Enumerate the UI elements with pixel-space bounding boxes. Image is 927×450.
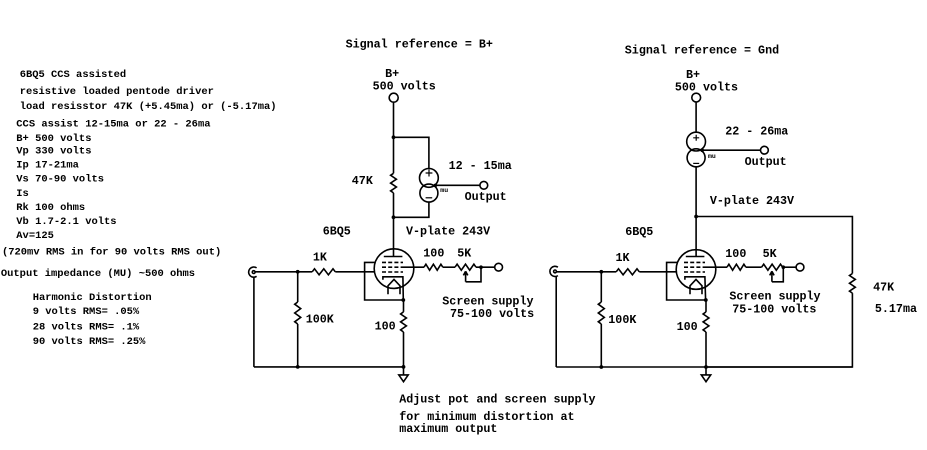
svg-text:6BQ5: 6BQ5 bbox=[625, 225, 653, 239]
resistor 100K (A) bbox=[295, 302, 301, 324]
wire 1K to grid (B) bbox=[639, 271, 676, 273]
tube V1 grid g1 (A) bbox=[382, 271, 403, 273]
node rail 100K junction (A) bbox=[296, 365, 300, 369]
svg-text:100K: 100K bbox=[608, 313, 637, 327]
wire ground rail (A) bbox=[254, 366, 404, 368]
wire cathode to rail (A) bbox=[403, 332, 405, 367]
terminal input jack arc (B) bbox=[550, 266, 558, 276]
node cathode junction (A) bbox=[401, 298, 405, 302]
terminal B+ (B) bbox=[692, 93, 701, 102]
pot wiper arrow (B) bbox=[770, 271, 774, 282]
tube V2 plate (B) bbox=[686, 256, 705, 258]
resistor 1K (A) bbox=[312, 269, 335, 275]
wire suppressor to cathode (A) bbox=[365, 262, 404, 300]
svg-text:5K: 5K bbox=[763, 247, 778, 261]
svg-text:100: 100 bbox=[725, 247, 746, 261]
svg-text:5.17ma: 5.17ma bbox=[875, 302, 917, 316]
resistor 47K load (B) bbox=[850, 274, 856, 294]
svg-text:100: 100 bbox=[423, 247, 444, 261]
svg-text:load resisstor 47K (+5.45ma) o: load resisstor 47K (+5.45ma) or (-5.17ma… bbox=[20, 101, 277, 113]
svg-text:12 - 15ma: 12 - 15ma bbox=[449, 159, 512, 173]
wire cathode resistor lead (B) bbox=[705, 300, 707, 312]
wire 100 to 5K (A) bbox=[443, 266, 455, 268]
minus sign (A) bbox=[426, 197, 433, 199]
node input junction (B) bbox=[599, 270, 603, 274]
terminal B+ (A) bbox=[389, 93, 398, 102]
wire output (A) bbox=[435, 184, 480, 186]
svg-text:(720mv RMS in for 90 volts RMS: (720mv RMS in for 90 volts RMS out) bbox=[2, 247, 221, 259]
svg-text:mu: mu bbox=[440, 187, 448, 194]
resistor 100 screen (B) bbox=[727, 264, 746, 270]
svg-text:100: 100 bbox=[677, 320, 698, 334]
node CCS output junction (B) bbox=[700, 149, 704, 153]
resistor 100 cathode (A) bbox=[401, 312, 407, 332]
tube V2 envelope (B) bbox=[676, 250, 716, 290]
node rail 100K junction (B) bbox=[599, 365, 603, 369]
wire to screen terminal (A) bbox=[476, 266, 495, 268]
wire 1K to grid (A) bbox=[335, 271, 374, 273]
wire input drop (A) bbox=[253, 277, 255, 367]
node plate junction (A) bbox=[392, 215, 396, 219]
resistor 1K (B) bbox=[616, 269, 639, 275]
svg-text:V-plate 243V: V-plate 243V bbox=[406, 224, 490, 238]
svg-text:Vs 70-90 volts: Vs 70-90 volts bbox=[16, 174, 104, 186]
svg-text:Signal reference = B+: Signal reference = B+ bbox=[346, 38, 493, 52]
wire screen (B) bbox=[705, 266, 727, 268]
ground stub (A) bbox=[403, 367, 405, 375]
svg-text:47K: 47K bbox=[873, 280, 895, 294]
svg-text:500 volts: 500 volts bbox=[373, 80, 436, 94]
svg-text:100K: 100K bbox=[306, 313, 335, 327]
pot wiper arrow (A) bbox=[463, 271, 467, 282]
svg-text:Is: Is bbox=[16, 188, 29, 200]
tube V2 grid g2 (B) bbox=[684, 266, 705, 268]
wire CCS to plate node (B) bbox=[695, 167, 697, 257]
wire 47K to plate node (A) bbox=[393, 193, 395, 257]
svg-text:resistive loaded pentode drive: resistive loaded pentode driver bbox=[20, 86, 214, 98]
plus sign (A) bbox=[426, 170, 433, 177]
terminal input jack arc (A) bbox=[249, 267, 257, 277]
terminal output (B) bbox=[761, 146, 769, 154]
wire ground rail (B) bbox=[556, 366, 852, 368]
svg-text:V-plate 243V: V-plate 243V bbox=[710, 194, 794, 208]
terminal input jack (A) bbox=[252, 271, 255, 274]
svg-text:500 volts: 500 volts bbox=[675, 81, 738, 95]
resistor 100 cathode (B) bbox=[703, 312, 709, 332]
svg-text:1K: 1K bbox=[616, 251, 631, 265]
current source CCS bottom circle (B) bbox=[687, 149, 705, 167]
resistor 47K (A) bbox=[391, 173, 397, 193]
resistor 100 screen (A) bbox=[424, 264, 443, 270]
svg-text:22 - 26ma: 22 - 26ma bbox=[725, 125, 788, 139]
tube V2 grid g3 (B) bbox=[684, 261, 705, 263]
svg-text:Output: Output bbox=[745, 155, 787, 169]
terminal screen supply (A) bbox=[495, 263, 503, 271]
wire cathode resistor lead (A) bbox=[403, 300, 405, 312]
tube V1 cathode (A) bbox=[383, 277, 403, 300]
wire input (B) bbox=[557, 271, 617, 273]
wire wiper to end (A) bbox=[466, 267, 481, 282]
svg-text:Screen supply: Screen supply bbox=[729, 290, 820, 304]
wire to screen terminal (B) bbox=[783, 266, 797, 268]
terminal output (A) bbox=[480, 181, 488, 189]
svg-text:75-100 volts: 75-100 volts bbox=[450, 307, 534, 321]
svg-text:5K: 5K bbox=[457, 247, 472, 261]
svg-text:Signal reference = Gnd: Signal reference = Gnd bbox=[625, 43, 779, 57]
svg-text:Ip 17-21ma: Ip 17-21ma bbox=[16, 159, 79, 171]
tube V1 heater (A) bbox=[388, 279, 400, 294]
node input junction (A) bbox=[296, 270, 300, 274]
svg-text:Output impedance (MU) ~500 ohm: Output impedance (MU) ~500 ohms bbox=[1, 268, 195, 280]
svg-text:6BQ5: 6BQ5 bbox=[323, 225, 351, 239]
notes text block bbox=[1, 69, 277, 348]
terminal input jack (B) bbox=[554, 270, 557, 273]
svg-text:mu: mu bbox=[708, 153, 716, 160]
wire plate node to 47K (B) bbox=[696, 217, 852, 274]
wire CCS branch bottom (A) bbox=[394, 202, 429, 217]
wire output (B) bbox=[702, 149, 760, 151]
wire 100K top lead (B) bbox=[600, 272, 602, 302]
svg-text:Output: Output bbox=[465, 190, 507, 204]
wire 100 to 5K (B) bbox=[746, 266, 762, 268]
svg-text:90 volts RMS= .25%: 90 volts RMS= .25% bbox=[33, 336, 146, 348]
wire 100K bottom lead (A) bbox=[297, 324, 299, 367]
plus sign (B) bbox=[693, 135, 699, 141]
svg-text:28 volts RMS= .1%: 28 volts RMS= .1% bbox=[33, 321, 140, 333]
ground symbol (A) bbox=[399, 375, 408, 382]
svg-text:Adjust pot and screen supply: Adjust pot and screen supply bbox=[399, 392, 595, 406]
tube V2 cathode (B) bbox=[685, 277, 706, 300]
wire CCS branch top (A) bbox=[394, 137, 429, 168]
tube V1 plate (A) bbox=[384, 256, 403, 258]
wire input (A) bbox=[255, 271, 312, 273]
wire wiper to end (B) bbox=[772, 267, 783, 282]
node cathode junction (B) bbox=[704, 298, 708, 302]
minus sign (B) bbox=[693, 162, 699, 164]
current source CCS top circle (B) bbox=[687, 132, 706, 151]
svg-text:47K: 47K bbox=[352, 174, 374, 188]
svg-text:Vb 1.7-2.1 volts: Vb 1.7-2.1 volts bbox=[16, 216, 116, 228]
node pot junction (A) bbox=[479, 265, 483, 269]
tube V1 envelope (A) bbox=[374, 249, 414, 289]
node CCS output junction (A) bbox=[434, 184, 438, 188]
svg-text:9 volts RMS= .05%: 9 volts RMS= .05% bbox=[33, 306, 140, 318]
svg-text:maximum output: maximum output bbox=[399, 422, 497, 436]
resistor 5K pot (B) bbox=[762, 264, 783, 270]
resistor 5K pot (A) bbox=[455, 264, 476, 270]
svg-text:Vp 330 volts: Vp 330 volts bbox=[16, 146, 91, 158]
wire 100K top lead (A) bbox=[297, 272, 299, 302]
wire screen (A) bbox=[403, 266, 424, 268]
wire cathode to rail (B) bbox=[705, 332, 707, 367]
tube V2 heater (B) bbox=[690, 279, 702, 294]
node top junction (A) bbox=[392, 135, 396, 139]
svg-text:B+ 500 volts: B+ 500 volts bbox=[16, 133, 91, 145]
wire 47K to rail (B) bbox=[706, 293, 852, 367]
svg-text:6BQ5 CCS assisted: 6BQ5 CCS assisted bbox=[20, 69, 126, 81]
current source CCS top circle (A) bbox=[420, 169, 439, 188]
current source CCS bottom circle (A) bbox=[420, 184, 438, 202]
tube V1 grid g2 (A) bbox=[382, 266, 403, 268]
svg-text:Av=125: Av=125 bbox=[16, 230, 54, 242]
wire input drop (B) bbox=[555, 276, 557, 367]
svg-text:75-100 volts: 75-100 volts bbox=[732, 303, 816, 317]
node rail cathode junction (B) bbox=[704, 365, 708, 369]
ground stub (B) bbox=[705, 367, 707, 375]
wire suppressor to cathode (B) bbox=[667, 262, 706, 300]
tube V1 grid g3 (A) bbox=[382, 261, 403, 263]
svg-text:Rk 100 ohms: Rk 100 ohms bbox=[16, 202, 85, 214]
svg-text:100: 100 bbox=[375, 319, 396, 333]
resistor 100K (B) bbox=[598, 302, 604, 324]
svg-text:Harmonic Distortion: Harmonic Distortion bbox=[33, 292, 152, 304]
node plate junction (B) bbox=[694, 215, 698, 219]
node pot junction (B) bbox=[782, 265, 786, 269]
ground symbol (B) bbox=[701, 375, 710, 382]
node rail cathode junction (A) bbox=[402, 365, 406, 369]
svg-text:1K: 1K bbox=[313, 251, 328, 265]
wire B+ down (A) bbox=[393, 102, 395, 173]
svg-text:CCS assist 12-15ma or 22 - 26m: CCS assist 12-15ma or 22 - 26ma bbox=[16, 119, 210, 131]
terminal screen supply (B) bbox=[796, 263, 804, 271]
wire B+ to CCS (B) bbox=[695, 102, 697, 132]
wire 100K bottom lead (B) bbox=[600, 324, 602, 367]
tube V2 grid g1 (B) bbox=[684, 271, 705, 273]
